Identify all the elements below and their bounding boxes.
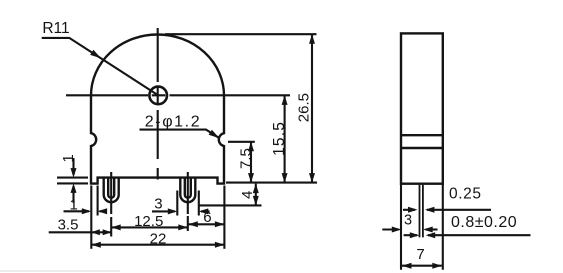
extension line foot inner left xyxy=(97,186,99,216)
center hole circle xyxy=(149,87,167,105)
dimension 7 xyxy=(402,246,442,269)
dimension 0.8 +/- 0.20 xyxy=(404,214,531,238)
horizontal centerline xyxy=(66,94,290,96)
dimension 0.25 xyxy=(403,185,491,213)
svg-text:15.5: 15.5 xyxy=(271,121,288,156)
extension line body right edge (below foot) xyxy=(223,186,225,249)
buzzer body outline (front view) xyxy=(91,34,224,183)
right pin xyxy=(180,172,195,214)
label R11 xyxy=(42,20,159,96)
extension line circle top xyxy=(165,33,317,35)
extension line left pin center lower xyxy=(110,217,112,237)
side view seam line upper xyxy=(401,134,443,136)
dimension 15.5 xyxy=(271,95,288,182)
dimension 3 at right pin xyxy=(152,195,210,214)
svg-text:0.8±0.20: 0.8±0.20 xyxy=(451,214,517,231)
dimension 1 horizontal (foot width) xyxy=(64,197,108,215)
side view right extension below xyxy=(442,184,444,270)
dimension 1 vertical (foot height) xyxy=(57,154,88,203)
svg-text:0.25: 0.25 xyxy=(449,185,482,202)
dimension 12.5 xyxy=(111,213,188,231)
extension line notch center right xyxy=(228,141,255,143)
svg-text:4: 4 xyxy=(239,191,256,199)
svg-text:1: 1 xyxy=(60,154,77,162)
dimension 22 xyxy=(91,230,224,247)
side view body rectangle xyxy=(401,33,443,183)
side view pins xyxy=(420,185,423,238)
svg-text:26.5: 26.5 xyxy=(296,93,313,122)
dimension 26.5 xyxy=(296,34,316,182)
left pin xyxy=(104,172,119,214)
dimension 3 side xyxy=(382,213,437,233)
extension line pin bottom right xyxy=(200,204,262,206)
faint cutoff text bottom left xyxy=(0,270,120,272)
svg-text:R11: R11 xyxy=(42,20,69,37)
vertical centerline xyxy=(157,28,159,180)
label 2-phi1.2 xyxy=(140,114,220,139)
svg-text:7: 7 xyxy=(416,246,424,263)
dimension 4 xyxy=(239,184,259,206)
dimension 7.5 xyxy=(237,142,254,183)
svg-text:3.5: 3.5 xyxy=(58,217,79,234)
side view seam line lower xyxy=(401,147,443,149)
dimension 3.5 xyxy=(49,217,111,236)
side view left extension below xyxy=(400,184,402,270)
extension line right pin center lower xyxy=(187,216,189,231)
svg-text:3: 3 xyxy=(154,195,162,212)
extension line body left edge (below foot) xyxy=(90,186,92,249)
extension lines for dim 3 at right pin xyxy=(177,191,199,216)
extension line bottom foot level xyxy=(226,182,317,184)
svg-text:3: 3 xyxy=(404,213,412,229)
dimension 6 xyxy=(188,209,224,227)
svg-text:2-φ1.2: 2-φ1.2 xyxy=(145,114,201,131)
svg-text:7.5: 7.5 xyxy=(237,148,254,169)
